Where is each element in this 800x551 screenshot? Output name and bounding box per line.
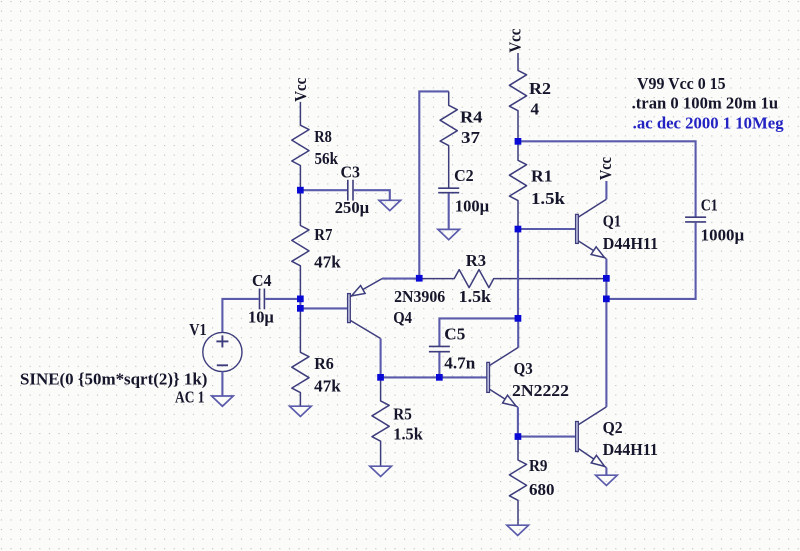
value 1.5k (R1) xyxy=(531,189,566,208)
svg-text:C1: C1 xyxy=(701,195,718,214)
label C4 xyxy=(252,271,272,290)
wire C2 to ground xyxy=(448,193,450,229)
resistor R2 xyxy=(509,53,526,141)
wire top rail to C1 xyxy=(518,141,696,216)
svg-text:250µ: 250µ xyxy=(335,198,370,217)
wire C3 left xyxy=(300,189,347,191)
wire Q3 collector stub xyxy=(517,318,519,347)
svg-text:1.5k: 1.5k xyxy=(459,287,492,306)
svg-text:R6: R6 xyxy=(314,354,334,373)
wire R4 top / long vertical xyxy=(419,91,448,278)
resistor R8 xyxy=(292,102,309,190)
node C5 bottom junction xyxy=(436,374,443,381)
wire Q1 collector stub xyxy=(605,181,607,199)
wire Q4 emitter to node xyxy=(382,278,419,280)
svg-text:680: 680 xyxy=(529,480,555,499)
svg-text:Q4: Q4 xyxy=(393,308,412,327)
capacitor C2 xyxy=(438,188,459,193)
net label Vcc (R2 top) xyxy=(506,29,525,53)
label R7 xyxy=(314,225,332,244)
wire V1 to C4 xyxy=(222,299,258,332)
wire R7-R6 segment xyxy=(299,299,301,309)
label C5 xyxy=(444,325,465,344)
svg-text:1.5k: 1.5k xyxy=(531,189,566,208)
capacitor C5 xyxy=(429,346,450,351)
label R8 xyxy=(314,127,332,146)
svg-text:Vcc: Vcc xyxy=(291,78,310,102)
value 680 xyxy=(529,480,555,499)
label Q2 xyxy=(603,418,623,437)
svg-text:4.7n: 4.7n xyxy=(444,353,475,372)
net label Vcc (Q1 collector) xyxy=(596,157,615,180)
ground C3 xyxy=(379,200,401,210)
svg-text:R3: R3 xyxy=(466,251,486,270)
wire C5 top xyxy=(439,318,518,346)
wire C3 right to ground xyxy=(354,190,390,200)
directive V99 xyxy=(637,74,726,93)
label D44H11 (Q1) xyxy=(603,234,658,253)
label C1 xyxy=(701,195,718,214)
svg-text:2N3906: 2N3906 xyxy=(394,287,445,306)
node emitter/R3 junction xyxy=(416,275,423,282)
node R3/output junction xyxy=(603,275,610,282)
svg-text:SINE(0 {50m*sqrt(2)} 1k): SINE(0 {50m*sqrt(2)} 1k) xyxy=(20,370,207,389)
wire C4 to node xyxy=(265,298,300,300)
label R2 xyxy=(529,79,551,98)
directive .ac xyxy=(633,113,785,132)
net label Vcc (R8 top) xyxy=(291,78,310,102)
svg-text:1.5k: 1.5k xyxy=(393,425,423,444)
resistor R3 xyxy=(419,270,606,288)
resistor R6 xyxy=(292,308,309,406)
value SINE xyxy=(20,370,207,389)
ground R9 xyxy=(507,525,529,535)
svg-text:56k: 56k xyxy=(315,149,339,168)
label Q3 xyxy=(514,359,533,378)
svg-text:R9: R9 xyxy=(529,456,548,475)
label C3 xyxy=(341,163,361,182)
svg-text:2N2222: 2N2222 xyxy=(512,381,569,400)
value 47k (R7) xyxy=(314,252,341,271)
label D44H11 (Q2) xyxy=(603,440,658,459)
value AC 1 xyxy=(175,387,205,406)
wire V1 to ground xyxy=(221,372,223,396)
resistor R4 xyxy=(440,91,457,187)
node Q4 base junction xyxy=(297,305,304,312)
svg-text:AC 1: AC 1 xyxy=(175,387,205,406)
svg-text:Q2: Q2 xyxy=(603,418,623,437)
svg-text:Q1: Q1 xyxy=(603,212,621,231)
svg-text:47k: 47k xyxy=(314,377,341,396)
label R6 xyxy=(314,354,334,373)
svg-text:R5: R5 xyxy=(393,405,412,424)
svg-text:R4: R4 xyxy=(460,108,483,127)
svg-text:37: 37 xyxy=(461,128,480,147)
transistor Q1 xyxy=(576,199,607,259)
value 100u xyxy=(455,196,490,215)
capacitor C3 xyxy=(348,180,353,201)
svg-text:R2: R2 xyxy=(529,79,551,98)
wire output vertical xyxy=(605,259,607,407)
node R8/R7/C3 junction xyxy=(297,187,304,194)
svg-text:D44H11: D44H11 xyxy=(603,234,658,253)
transistor Q3 xyxy=(487,347,519,407)
svg-text:D44H11: D44H11 xyxy=(603,440,658,459)
svg-text:Vcc: Vcc xyxy=(506,29,525,53)
transistor Q2 xyxy=(576,407,607,468)
svg-text:.ac dec 2000 1 10Meg: .ac dec 2000 1 10Meg xyxy=(633,113,785,132)
ground Q2 xyxy=(596,475,618,485)
resistor R9 xyxy=(509,437,526,526)
svg-text:R1: R1 xyxy=(531,167,553,186)
resistor R1 xyxy=(509,141,526,229)
value 1.5k (R3) xyxy=(459,287,492,306)
label 2N2222 xyxy=(512,381,569,400)
svg-text:100µ: 100µ xyxy=(455,196,490,215)
label R1 xyxy=(531,167,553,186)
label V1 xyxy=(189,320,206,339)
capacitor C4 xyxy=(260,289,265,310)
label C2 xyxy=(454,166,474,185)
wire node row to Q3 base xyxy=(381,376,487,378)
svg-text:R7: R7 xyxy=(314,225,332,244)
label R5 xyxy=(393,405,412,424)
directive .tran xyxy=(632,94,779,113)
svg-text:C2: C2 xyxy=(454,166,474,185)
node R1/Q1 base junction xyxy=(515,226,522,233)
value 10u xyxy=(248,308,274,327)
node C1/output junction xyxy=(603,296,610,303)
wire C1 bottom to output xyxy=(606,223,695,299)
ground R6 xyxy=(290,406,312,416)
label Q1 xyxy=(603,212,621,231)
label 2N3906 xyxy=(394,287,445,306)
ground C2 xyxy=(438,229,460,239)
svg-text:10µ: 10µ xyxy=(248,308,274,327)
ground V1 xyxy=(212,396,234,406)
value 56k xyxy=(315,149,339,168)
node C4/R7 junction xyxy=(297,296,304,303)
svg-text:C5: C5 xyxy=(444,325,465,344)
resistor R7 xyxy=(292,190,309,299)
svg-text:R8: R8 xyxy=(314,127,332,146)
wire Q2 base xyxy=(518,436,576,438)
wire mid vertical R1-C5 xyxy=(517,229,519,318)
svg-text:47k: 47k xyxy=(314,252,341,271)
capacitor C1 xyxy=(685,217,706,222)
value 37 xyxy=(461,128,480,147)
wire Q3 emitter down xyxy=(517,407,519,436)
label R4 xyxy=(460,108,483,127)
node R2/C1 junction xyxy=(515,138,522,145)
value 47k (R6) xyxy=(314,377,341,396)
svg-text:Q3: Q3 xyxy=(514,359,533,378)
value 1000u xyxy=(701,226,745,245)
resistor R5 xyxy=(372,377,389,466)
value 4 xyxy=(531,99,540,118)
svg-text:4: 4 xyxy=(531,99,540,118)
svg-text:Vcc: Vcc xyxy=(596,157,615,180)
wire Q4 base xyxy=(300,307,347,309)
voltage source V1 xyxy=(203,332,242,371)
ground R5 xyxy=(370,466,392,476)
label R9 xyxy=(529,456,548,475)
svg-text:V99 Vcc 0 15: V99 Vcc 0 15 xyxy=(637,74,726,93)
svg-text:.tran 0 100m 20m 1u: .tran 0 100m 20m 1u xyxy=(632,94,779,113)
node C5/Q3 collector junction xyxy=(515,315,522,322)
svg-text:V1: V1 xyxy=(189,320,206,339)
value 250u xyxy=(335,198,370,217)
label R3 xyxy=(466,251,486,270)
wire Q2 emitter to ground xyxy=(605,468,607,476)
node R5/Q4 collector junction xyxy=(377,374,384,381)
transistor Q4 xyxy=(348,279,382,339)
wire Q4 collector down xyxy=(380,339,382,378)
wire C5 bottom xyxy=(438,352,440,377)
value 1.5k (R5) xyxy=(393,425,423,444)
wire Q1 base xyxy=(518,228,576,230)
svg-text:C3: C3 xyxy=(341,163,361,182)
label Q4 xyxy=(393,308,412,327)
value 4.7n xyxy=(444,353,475,372)
svg-text:1000µ: 1000µ xyxy=(701,226,745,245)
svg-text:C4: C4 xyxy=(252,271,272,290)
node Q2 base junction xyxy=(515,433,522,440)
